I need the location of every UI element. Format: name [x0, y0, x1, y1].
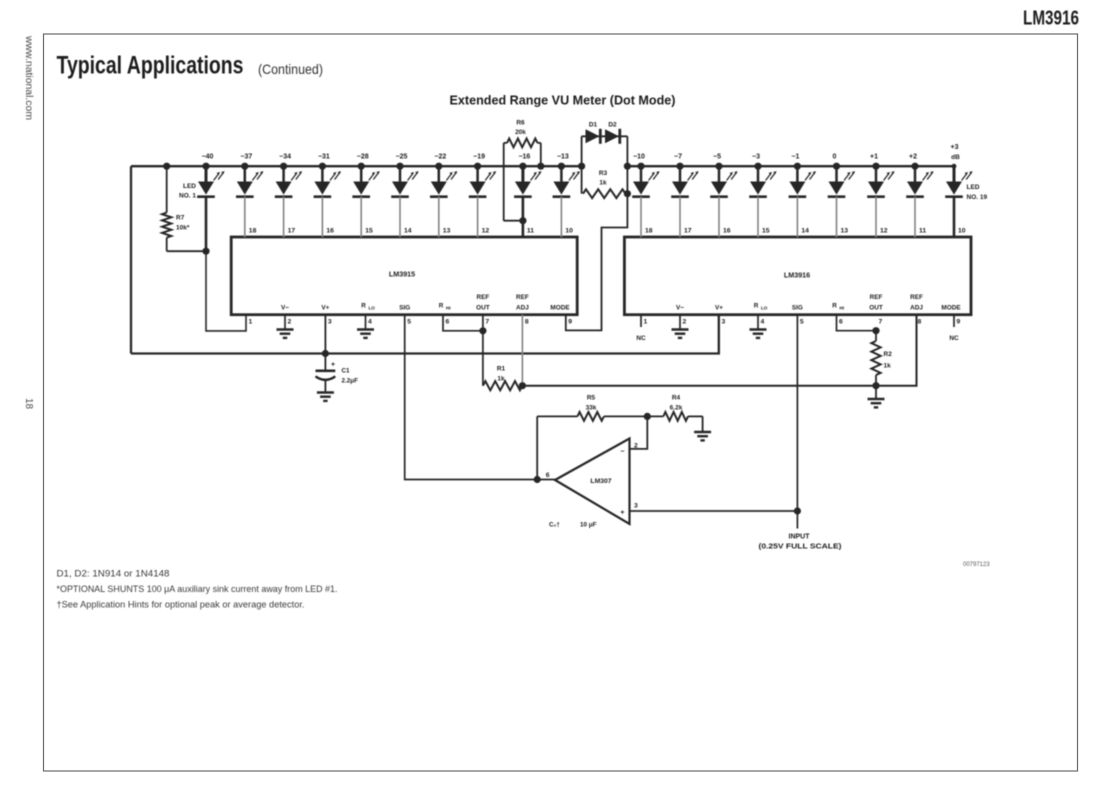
node input junction: [794, 507, 801, 514]
svg-text:ADJ: ADJ: [516, 305, 529, 312]
svg-text:13: 13: [443, 228, 451, 235]
wire RHI to REF OUT (U2 pins 6-7): [837, 315, 877, 331]
svg-text:www.national.com: www.national.com: [23, 35, 34, 120]
LED D8R (+2 dB): [906, 154, 933, 197]
svg-text:R: R: [361, 303, 366, 310]
LED D3L (-34 dB): [275, 154, 302, 197]
wire pin 15 stub (U2): [757, 197, 759, 237]
wire pin 11 stub (U2): [914, 197, 916, 237]
wire pin 16 stub (U2): [718, 197, 720, 237]
svg-text:(Continued): (Continued): [258, 61, 323, 77]
svg-text:15: 15: [365, 228, 373, 235]
wire pin 10 stub (U2): [953, 197, 956, 237]
wire pin 12 stub (U2): [875, 197, 877, 237]
svg-text:Extended Range VU Meter (Dot M: Extended Range VU Meter (Dot Mode): [450, 93, 676, 108]
svg-text:REF: REF: [516, 294, 529, 301]
svg-text:NC: NC: [949, 335, 959, 342]
ground (R2): [868, 386, 885, 408]
node R6 / LED cathode junction: [519, 217, 526, 224]
svg-text:OUT: OUT: [869, 305, 883, 312]
ground (U2 pin 4): [750, 315, 767, 338]
svg-text:13: 13: [841, 228, 849, 235]
svg-text:INPUT: INPUT: [789, 534, 811, 541]
svg-text:R6: R6: [516, 120, 525, 127]
svg-text:R2: R2: [884, 351, 893, 358]
node R3 right junction: [624, 190, 631, 197]
wire pin 12 stub (U1): [477, 197, 479, 237]
wire pin 13 stub (U2): [836, 197, 838, 237]
wire: [131, 315, 719, 354]
svg-text:LED: LED: [967, 184, 980, 191]
svg-text:11: 11: [527, 228, 534, 235]
svg-text:−5: −5: [713, 154, 721, 161]
svg-text:00797123: 00797123: [963, 562, 990, 568]
svg-text:NO. 19: NO. 19: [967, 194, 988, 201]
svg-text:9: 9: [957, 319, 961, 326]
wire pin 18 stub (U2): [640, 197, 642, 237]
wire REF OUT (U1 pin 7) down: [482, 315, 484, 386]
pin name labels (U2): [676, 294, 961, 312]
node INPUT terminal: [759, 511, 842, 551]
resistor R1 1k: [483, 366, 523, 391]
svg-text:LM3916: LM3916: [784, 271, 810, 280]
capacitor CIN label: [549, 522, 597, 529]
node rail junctions (left): [163, 163, 585, 170]
wire D1 leg: [581, 136, 583, 193]
LED D1L (-40 dB): [179, 154, 225, 200]
svg-text:1k: 1k: [599, 180, 607, 187]
svg-text:2: 2: [634, 443, 638, 450]
svg-text:2.2μF: 2.2μF: [342, 378, 359, 385]
node LED1 cathode junction: [202, 248, 209, 255]
LED D8L (-19 dB): [469, 154, 496, 197]
wire pin 17 stub (U1): [283, 197, 285, 237]
svg-text:−16: −16: [518, 154, 530, 161]
wire pin 15 stub (U1): [360, 197, 362, 237]
svg-text:−3: −3: [752, 154, 760, 161]
ground (U1 pin 4): [357, 315, 374, 338]
node R1 / REF ADJ junction: [519, 382, 526, 389]
wire: [131, 165, 582, 167]
IC U1 LM3915: [231, 237, 577, 315]
svg-text:10k*: 10k*: [176, 225, 190, 232]
diode D1 1N914: [582, 122, 628, 144]
wire REF ADJ (U1 pin 8) thin stub: [521, 315, 523, 386]
svg-text:R5: R5: [587, 395, 596, 402]
svg-text:REF: REF: [910, 294, 923, 301]
LED D9R (+3 dB): [945, 144, 987, 201]
svg-text:V−: V−: [676, 305, 684, 312]
svg-text:3: 3: [328, 319, 332, 326]
wire feedback riser: [536, 416, 538, 479]
svg-text:HI: HI: [840, 306, 845, 311]
svg-text:MODE: MODE: [550, 305, 570, 312]
svg-text:−25: −25: [396, 154, 408, 161]
svg-text:4: 4: [761, 319, 765, 326]
svg-text:R: R: [832, 303, 837, 310]
svg-text:16: 16: [326, 228, 334, 235]
svg-text:18: 18: [23, 398, 34, 410]
svg-text:+: +: [620, 510, 624, 517]
LED D6R (0 dB): [828, 154, 855, 197]
wire inverting input step (pin 2): [630, 416, 647, 449]
svg-text:R: R: [439, 303, 444, 310]
svg-text:C₂†: C₂†: [549, 522, 560, 529]
wire RHI to REF OUT (U1 pins 6-7): [443, 315, 483, 331]
resistor R3 1k: [583, 170, 626, 198]
svg-text:LED: LED: [183, 183, 196, 190]
resistor R6 20k (parallel LED -16): [504, 120, 541, 221]
svg-text:16: 16: [723, 228, 731, 235]
svg-text:dB: dB: [951, 154, 960, 161]
svg-text:1: 1: [644, 319, 648, 326]
svg-text:V+: V+: [321, 305, 329, 312]
svg-text:1k: 1k: [497, 376, 505, 383]
LED D5R (-1 dB): [789, 154, 816, 197]
svg-text:+2: +2: [909, 154, 917, 161]
svg-text:7: 7: [879, 319, 883, 326]
wire pin 14 stub (U1): [399, 197, 401, 237]
svg-text:−37: −37: [240, 154, 252, 161]
svg-text:MODE: MODE: [941, 305, 961, 312]
svg-text:−31: −31: [318, 154, 330, 161]
pin 9 NC stub (U2): [949, 315, 959, 342]
svg-text:D1: D1: [589, 122, 598, 129]
svg-text:LM3916: LM3916: [1023, 8, 1079, 30]
node rail junctions (right): [624, 163, 957, 170]
IC U2 LM3916: [624, 237, 971, 315]
wire MODE (U1 pin 9) to V+ LED rail of U2: [566, 194, 628, 331]
wire LED1 cathode to pin 1 (U1): [206, 197, 246, 331]
svg-text:+: +: [331, 362, 335, 369]
svg-text:SIG: SIG: [399, 305, 410, 312]
svg-text:(0.25V FULL SCALE): (0.25V FULL SCALE): [759, 544, 842, 551]
svg-text:2: 2: [683, 319, 687, 326]
svg-text:LM307: LM307: [590, 478, 611, 485]
svg-text:R7: R7: [176, 215, 185, 222]
svg-text:LO: LO: [369, 306, 376, 311]
op-amp U3 LM307: [546, 439, 638, 524]
svg-text:V−: V−: [281, 305, 289, 312]
svg-text:−28: −28: [357, 154, 369, 161]
pin numbers 1-9 (U2): [644, 319, 961, 326]
svg-text:10 μF: 10 μF: [580, 522, 597, 529]
svg-text:C1: C1: [342, 368, 351, 375]
wire SIG (U1 pin 5) down to op-amp output: [405, 315, 555, 480]
svg-text:−7: −7: [674, 154, 682, 161]
wire pin 13 stub (U1): [438, 197, 440, 237]
pin 1 NC stub (U2): [636, 315, 646, 342]
wire: [130, 166, 132, 353]
svg-text:−34: −34: [279, 154, 291, 161]
svg-text:5: 5: [800, 319, 804, 326]
node pin7 junction (U1): [479, 327, 486, 334]
LED D2L (-37 dB): [236, 154, 263, 197]
svg-text:2: 2: [288, 319, 292, 326]
LED D4R (-3 dB): [749, 154, 776, 197]
resistor R2 1k: [871, 331, 892, 386]
svg-text:12: 12: [880, 228, 888, 235]
svg-text:HI: HI: [446, 306, 451, 311]
pin numbers 1-9 (U1): [249, 319, 573, 326]
svg-text:*OPTIONAL SHUNTS 100 μA auxili: *OPTIONAL SHUNTS 100 μA auxiliary sink c…: [57, 584, 338, 594]
svg-text:SIG: SIG: [792, 305, 803, 312]
svg-text:8: 8: [525, 319, 529, 326]
node V+ / C1 junction: [322, 315, 329, 357]
wire pin 14 stub (U2): [796, 197, 798, 237]
LED D2R (-7 dB): [671, 154, 698, 197]
svg-text:18: 18: [645, 228, 653, 235]
LED D6L (-25 dB): [391, 154, 418, 197]
wire SIG (U2 pin 5) down to input: [796, 315, 798, 511]
svg-text:9: 9: [568, 319, 572, 326]
svg-text:LO: LO: [761, 306, 768, 311]
svg-text:12: 12: [482, 228, 490, 235]
svg-text:6: 6: [446, 319, 450, 326]
ground (U2 pin 2): [672, 315, 689, 338]
svg-text:3: 3: [634, 503, 638, 510]
svg-text:−1: −1: [791, 154, 799, 161]
wire pin 16 stub (U1): [321, 197, 323, 237]
LED D7R (+1 dB): [867, 154, 894, 197]
svg-text:R1: R1: [497, 366, 506, 373]
svg-text:REF: REF: [870, 294, 883, 301]
svg-text:V+: V+: [715, 305, 723, 312]
node pin7 junction (U2): [872, 327, 879, 334]
svg-text:17: 17: [288, 228, 296, 235]
svg-text:0: 0: [833, 154, 837, 161]
svg-text:6: 6: [839, 319, 843, 326]
svg-text:OUT: OUT: [476, 305, 490, 312]
ground (C1): [317, 391, 334, 393]
svg-text:Typical Applications: Typical Applications: [57, 52, 244, 80]
wire output (pin 3) to input node: [630, 510, 798, 512]
wire pin 18 stub (U1): [244, 197, 246, 237]
svg-text:†See Application Hints for opt: †See Application Hints for optional peak…: [57, 600, 305, 610]
resistor R4 6.2k: [647, 395, 702, 432]
node R2 bottom junction: [872, 382, 879, 389]
svg-text:LM3915: LM3915: [389, 270, 415, 279]
resistor R7 10k* (parallel LED No.1): [162, 166, 206, 251]
svg-text:6: 6: [546, 472, 550, 479]
svg-text:−13: −13: [557, 154, 569, 161]
svg-text:+3: +3: [951, 144, 959, 151]
svg-text:14: 14: [404, 228, 412, 235]
svg-text:1k: 1k: [884, 363, 892, 370]
svg-text:17: 17: [684, 228, 692, 235]
pin name labels (U1): [281, 294, 570, 312]
wire REF ADJ bus to U2 pin 8: [522, 315, 916, 386]
svg-text:8: 8: [918, 319, 922, 326]
LED D9L (-16 dB): [514, 154, 541, 197]
svg-text:20k: 20k: [515, 129, 526, 136]
svg-text:−40: −40: [202, 154, 214, 161]
svg-text:+1: +1: [870, 154, 878, 161]
ground (U1 pin 2): [277, 315, 294, 338]
svg-text:−19: −19: [473, 154, 485, 161]
wire pin 11 stub (U1): [522, 197, 525, 237]
LED D3R (-5 dB): [710, 154, 737, 197]
svg-text:7: 7: [485, 319, 489, 326]
svg-text:1: 1: [249, 319, 253, 326]
svg-text:10: 10: [958, 228, 966, 235]
wire D2 leg: [626, 136, 628, 193]
wire LED supply rail (right): [627, 165, 954, 167]
svg-text:REF: REF: [477, 294, 490, 301]
svg-text:3: 3: [722, 319, 726, 326]
node op-amp output junction: [534, 476, 541, 483]
resistor R5 33k: [537, 395, 647, 421]
svg-text:NC: NC: [636, 335, 646, 342]
svg-text:D1, D2: 1N914 or 1N4148: D1, D2: 1N914 or 1N4148: [57, 569, 170, 579]
LED D1R (-10 dB): [632, 154, 659, 197]
svg-text:R: R: [754, 303, 759, 310]
LED D10L (-13 dB): [553, 154, 580, 197]
diode D2 1N914: [605, 122, 620, 144]
node R5/R4 junction: [644, 413, 651, 420]
ground (R4): [694, 431, 711, 433]
svg-text:−22: −22: [434, 154, 446, 161]
svg-text:14: 14: [801, 228, 809, 235]
svg-text:4: 4: [368, 319, 372, 326]
svg-text:11: 11: [919, 228, 926, 235]
svg-text:−: −: [620, 449, 624, 456]
svg-text:15: 15: [762, 228, 770, 235]
LED D4L (-31 dB): [314, 154, 341, 197]
svg-text:D2: D2: [608, 122, 617, 129]
svg-text:−10: −10: [633, 154, 645, 161]
svg-text:R4: R4: [672, 395, 681, 402]
svg-text:NO. 1: NO. 1: [179, 193, 196, 200]
wire pin 10 stub (U1): [560, 197, 562, 237]
wire pin 17 stub (U2): [679, 197, 681, 237]
svg-text:R3: R3: [599, 170, 608, 177]
svg-text:5: 5: [407, 319, 411, 326]
capacitor C1 2.2uF: [316, 354, 359, 393]
svg-text:6.2k: 6.2k: [670, 405, 683, 412]
LED D7L (-22 dB): [430, 154, 457, 197]
LED D5L (-28 dB): [352, 154, 379, 197]
svg-text:ADJ: ADJ: [910, 305, 923, 312]
svg-text:33k: 33k: [586, 405, 597, 412]
svg-text:10: 10: [565, 228, 573, 235]
svg-text:18: 18: [249, 228, 257, 235]
